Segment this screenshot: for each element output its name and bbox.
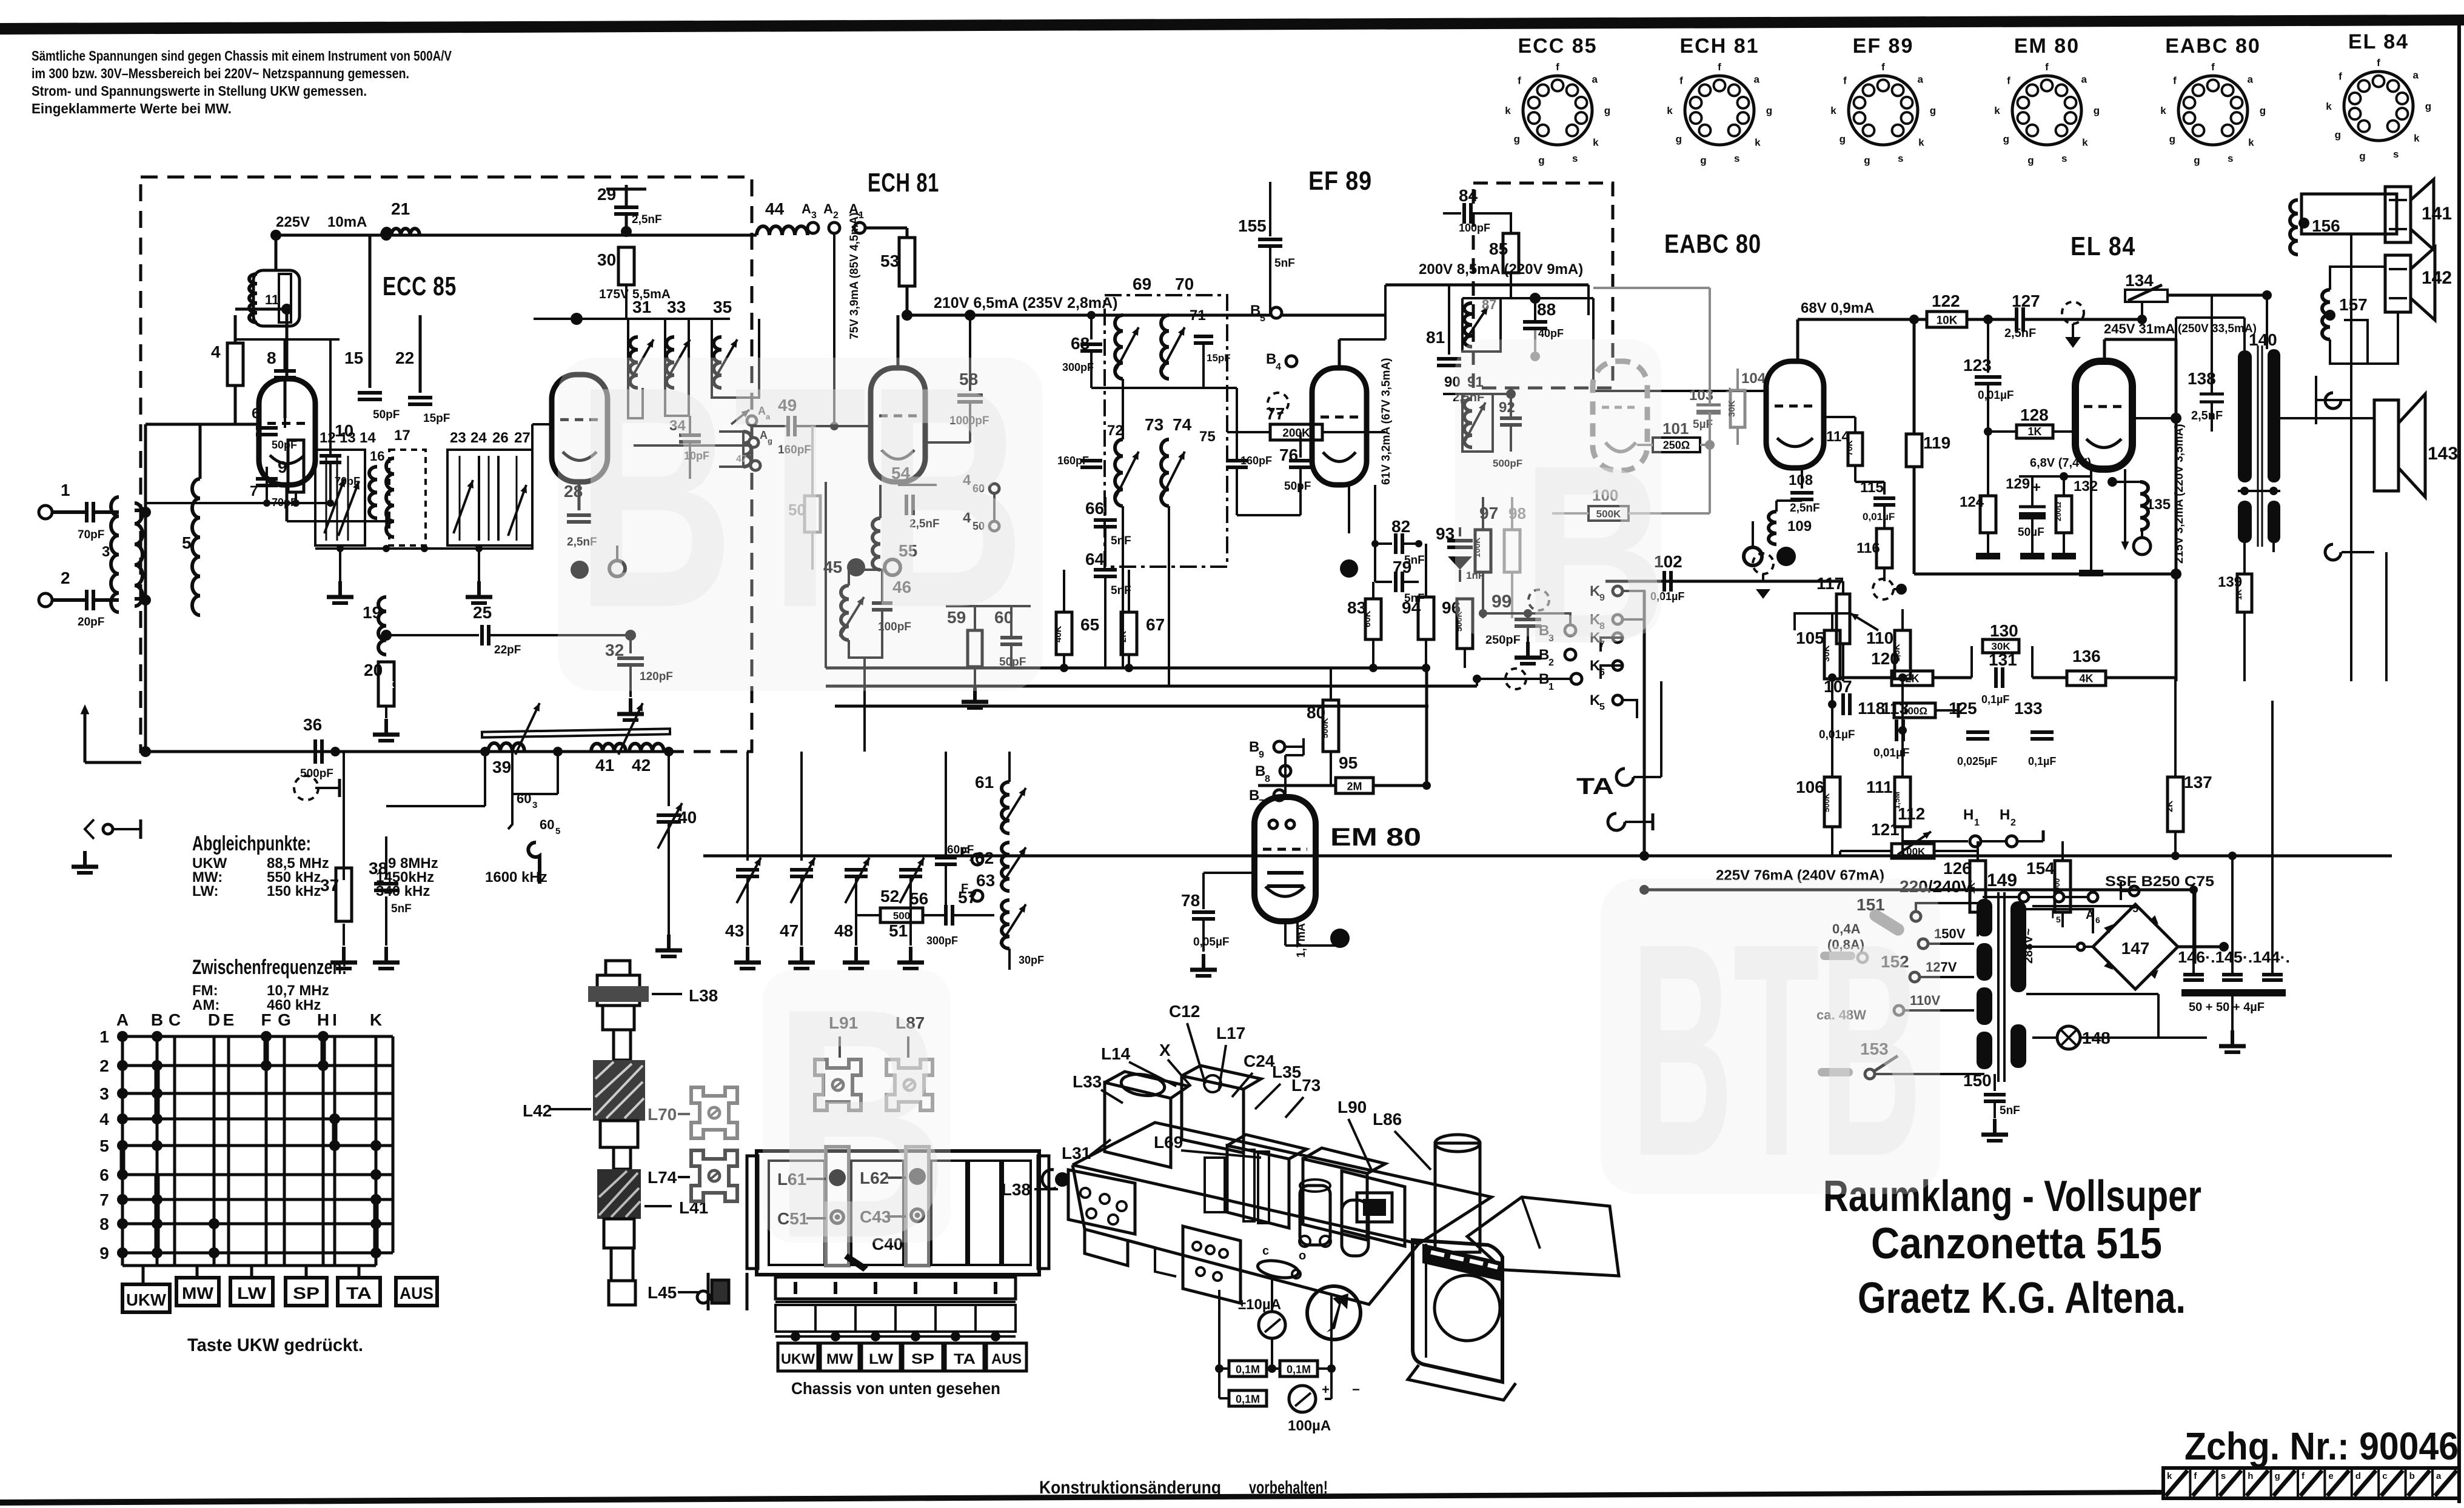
- svg-text:62: 62: [975, 849, 994, 867]
- speaker 143 terminals: [2325, 393, 2341, 409]
- ground 78: [1202, 954, 1205, 970]
- svg-text:36: 36: [303, 715, 322, 734]
- trimmer 47: [800, 752, 803, 861]
- coil 86 87: [1462, 298, 1501, 352]
- chassis left bracket L38 mount: [1068, 1170, 1135, 1234]
- top border bar: [0, 15, 2464, 35]
- coil former L70: [691, 1087, 737, 1138]
- chassis front face: [1073, 1165, 1419, 1304]
- svg-text:73: 73: [1145, 415, 1163, 434]
- svg-text:52: 52: [880, 887, 899, 906]
- heater terminal filled: [571, 561, 589, 579]
- capacitor 29 on top: [625, 185, 628, 206]
- choke 21: [382, 229, 420, 235]
- svg-text:35: 35: [713, 298, 732, 316]
- svg-text:TA: TA: [1576, 774, 1614, 799]
- capacitor 15: [369, 235, 370, 355]
- watermark halo right: [1455, 339, 1661, 636]
- capacitor 38: [385, 836, 387, 879]
- ground filter caps: [2231, 996, 2234, 1030]
- bus pair under ECH81: [826, 667, 1427, 670]
- panel button SP: [903, 1343, 943, 1371]
- svg-text:Konstruktionsänderung: Konstruktionsänderung: [1039, 1478, 1221, 1498]
- svg-text:129: 129: [2006, 476, 2030, 492]
- svg-text:a: a: [2081, 74, 2087, 85]
- resistor 154: [2055, 861, 2071, 912]
- svg-text:g: g: [1930, 105, 1936, 116]
- ground 124: [1976, 553, 2000, 559]
- switch matrix button stems: [142, 1266, 145, 1284]
- svg-text:136: 136: [2072, 647, 2101, 666]
- svg-text:k: k: [1755, 137, 1761, 148]
- svg-text:10mA: 10mA: [327, 214, 367, 230]
- trimmer 43: [746, 752, 749, 861]
- svg-text:LW: LW: [869, 1351, 893, 1367]
- svg-text:EM 80: EM 80: [1330, 822, 1421, 851]
- button MW: [176, 1278, 219, 1306]
- wire coil 11 to HT bus: [275, 235, 278, 270]
- svg-text:C12: C12: [1169, 1002, 1200, 1021]
- wires mixer grid area: [235, 338, 340, 341]
- svg-text:5nF: 5nF: [391, 902, 412, 915]
- ground 38: [384, 947, 388, 963]
- resistor 50: [805, 496, 820, 532]
- svg-text:0,025µF: 0,025µF: [1957, 755, 1997, 767]
- wire EM80 bottom: [1284, 921, 1287, 946]
- svg-text:a: a: [1592, 74, 1598, 85]
- svg-text:30pF: 30pF: [1019, 954, 1044, 966]
- svg-text:93: 93: [1436, 524, 1455, 543]
- svg-text:210V 6,5mA (235V 2,8mA): 210V 6,5mA (235V 2,8mA): [934, 295, 1117, 312]
- wire transformer right to speaker: [2280, 417, 2374, 419]
- svg-text:26: 26: [492, 430, 509, 446]
- svg-text:15pF: 15pF: [1207, 352, 1231, 364]
- svg-text:5nF: 5nF: [1111, 535, 1131, 547]
- svg-text:4: 4: [211, 342, 221, 361]
- svg-text:500: 500: [893, 910, 910, 922]
- svg-text:EABC 80: EABC 80: [1664, 229, 1761, 259]
- coil 135: [2107, 477, 2117, 487]
- capacitor 46: [872, 601, 892, 605]
- svg-text:27: 27: [514, 430, 531, 446]
- wire 215V vertical: [2175, 339, 2178, 681]
- svg-text:72: 72: [1107, 422, 1123, 439]
- filter capacitor 145: [2222, 973, 2243, 976]
- svg-text:142: 142: [2422, 268, 2452, 288]
- IF can 2: [1182, 1076, 1244, 1153]
- svg-text:67: 67: [1146, 615, 1165, 634]
- svg-text:f: f: [2173, 75, 2177, 87]
- svg-text:h: h: [2248, 1471, 2253, 1481]
- speaker 143: [2374, 400, 2399, 491]
- svg-text:f: f: [1679, 75, 1683, 87]
- svg-text:EL 84: EL 84: [2071, 232, 2136, 261]
- svg-text:106: 106: [1796, 778, 1824, 796]
- panel lower band: [775, 1305, 1016, 1332]
- svg-text:118: 118: [1858, 699, 1885, 718]
- transformer base flange: [1408, 1365, 1516, 1400]
- capacitor 22: [419, 315, 422, 393]
- tap 127V: [1910, 972, 1920, 982]
- heater wire from transformer: [2206, 947, 2208, 1038]
- wire anode T1 up: [286, 309, 289, 379]
- svg-text:g: g: [2094, 105, 2100, 116]
- svg-text:a: a: [1754, 74, 1760, 85]
- svg-text:a: a: [2248, 74, 2254, 85]
- svg-text:g: g: [1604, 105, 1610, 116]
- capacitor 34: [679, 433, 701, 437]
- svg-text:c: c: [2382, 1471, 2387, 1481]
- resistor 126: [1970, 861, 1986, 912]
- svg-text:40pF: 40pF: [1538, 327, 1564, 339]
- terminal C43: [909, 1207, 925, 1223]
- svg-text:F: F: [261, 1010, 271, 1029]
- svg-text:11: 11: [265, 292, 279, 307]
- svg-text:k: k: [1918, 137, 1924, 148]
- capacitor 70pF input: [85, 502, 89, 522]
- svg-text:134: 134: [2125, 271, 2154, 290]
- button SP: [286, 1278, 327, 1306]
- svg-text:37: 37: [320, 876, 339, 895]
- switch matrix contact dots: [117, 1031, 128, 1042]
- svg-text:150: 150: [1963, 1071, 1992, 1090]
- svg-text:Zchg. Nr.: 90046: Zchg. Nr.: 90046: [2184, 1424, 2459, 1468]
- capacitor 10: [320, 454, 341, 458]
- svg-text:ECC 85: ECC 85: [1518, 35, 1597, 58]
- svg-text:o: o: [1299, 1249, 1306, 1263]
- svg-text:3: 3: [102, 544, 110, 560]
- antenna base end: [609, 1281, 635, 1305]
- junction dot bus x637: [381, 230, 392, 241]
- svg-text:9: 9: [1259, 750, 1264, 760]
- antenna input terminal 1: [39, 505, 52, 519]
- svg-text:H: H: [2000, 807, 2010, 823]
- svg-text:EL 84: EL 84: [2348, 30, 2409, 53]
- svg-text:2: 2: [99, 1056, 109, 1075]
- terminal A3: [808, 222, 819, 233]
- svg-text:24: 24: [470, 430, 487, 446]
- svg-text:139: 139: [2218, 574, 2242, 590]
- svg-text:23: 23: [450, 430, 466, 446]
- antenna socket dot: [1055, 1172, 1070, 1187]
- ground 132: [2052, 553, 2076, 559]
- svg-text:50pF: 50pF: [1284, 480, 1311, 493]
- resistor 97 100K: [1475, 530, 1491, 572]
- FM filter loop 33: [665, 319, 689, 416]
- label L38 antenna: [652, 993, 682, 995]
- capacitor 28: [578, 482, 580, 508]
- coil L42 winding: [593, 1060, 645, 1121]
- bandfilter box 12 13 14: [315, 450, 365, 545]
- svg-text:B: B: [151, 1010, 163, 1029]
- svg-text:0,1M: 0,1M: [1287, 1363, 1311, 1375]
- capacitor 64: [1094, 568, 1117, 572]
- svg-text:5nF: 5nF: [2000, 1104, 2020, 1117]
- tall cylinder: [1435, 1143, 1480, 1252]
- panel dot row: [791, 1332, 800, 1341]
- svg-text:L45: L45: [648, 1283, 677, 1302]
- speaker wiring: [2330, 267, 2385, 290]
- antenna tube 1: [614, 1030, 631, 1060]
- svg-text:f: f: [1843, 75, 1847, 87]
- svg-text:112: 112: [1898, 804, 1925, 823]
- IF coil 74: [1161, 439, 1169, 506]
- terminal L61: [829, 1169, 846, 1186]
- chassis inner ledge: [1128, 1240, 1176, 1276]
- svg-text:E: E: [223, 1010, 235, 1029]
- bus third: [835, 705, 1428, 708]
- svg-text:s: s: [2061, 153, 2067, 164]
- IF can 3: [1227, 1146, 1289, 1228]
- svg-text:94: 94: [1402, 598, 1421, 617]
- svg-text:132: 132: [2074, 478, 2098, 495]
- terminal C51: [829, 1209, 845, 1225]
- capacitor 66: [1104, 497, 1106, 515]
- svg-text:81: 81: [1426, 328, 1445, 347]
- svg-text:68V 0,9mA: 68V 0,9mA: [1801, 300, 1874, 316]
- switch matrix horizontal lines: [122, 1035, 393, 1038]
- watermark halo bottom left: [763, 970, 951, 1243]
- svg-text:460 kHz: 460 kHz: [267, 997, 321, 1013]
- svg-text:6: 6: [2095, 915, 2100, 925]
- svg-text:Graetz K.G. Altena.: Graetz K.G. Altena.: [1858, 1274, 2186, 1323]
- svg-text:BTB: BTB: [1631, 880, 1922, 1219]
- coil 109: [1769, 512, 1776, 544]
- ground 43: [746, 947, 749, 963]
- svg-text:77: 77: [1266, 404, 1285, 423]
- wire vertical x2353: [1425, 668, 1428, 786]
- long bottom bus: [703, 855, 2392, 858]
- transformer 140 wires: [2266, 295, 2268, 349]
- ground 40: [667, 935, 671, 950]
- svg-text:D: D: [208, 1010, 220, 1029]
- svg-text:UKW: UKW: [781, 1351, 815, 1367]
- svg-text:30: 30: [597, 250, 616, 269]
- svg-text:88: 88: [1537, 300, 1556, 319]
- svg-text:f: f: [2211, 61, 2215, 73]
- tube EABC 80: [1766, 361, 1824, 468]
- svg-text:131: 131: [1989, 650, 2017, 669]
- chassis deck top face: [1073, 1123, 1491, 1244]
- svg-text:43: 43: [725, 921, 744, 940]
- svg-text:2,5nF: 2,5nF: [2191, 409, 2223, 422]
- svg-text:B: B: [1255, 763, 1265, 779]
- oscillator coil 11 with core: [253, 270, 300, 326]
- wire IF top: [1091, 387, 1237, 389]
- wire EF89 anode up: [1338, 339, 1341, 368]
- svg-text:40: 40: [678, 808, 697, 827]
- FM dipole arrow: [84, 708, 87, 762]
- svg-text:4K: 4K: [2079, 673, 2093, 685]
- trimmer block 23 24 26 27: [447, 450, 532, 545]
- svg-text:20pF: 20pF: [78, 616, 104, 629]
- svg-text:141: 141: [2422, 204, 2452, 224]
- heater dot EABC80: [1776, 547, 1796, 566]
- resistor 80 500K: [1323, 700, 1339, 752]
- svg-text:Abgleichpunkte:: Abgleichpunkte:: [192, 832, 311, 855]
- svg-text:7: 7: [99, 1190, 109, 1209]
- svg-text:74: 74: [1173, 415, 1192, 434]
- svg-text:B: B: [1250, 302, 1260, 319]
- filter cap feed wires: [2192, 890, 2195, 975]
- svg-text:g: g: [2425, 101, 2431, 112]
- svg-text:100K: 100K: [1901, 846, 1926, 858]
- coil 39: [488, 743, 524, 752]
- keyboard panel outer: [757, 1151, 1039, 1275]
- node 88: [1530, 293, 1541, 304]
- bridge DC out: [2178, 946, 2224, 949]
- coupling loop right: [719, 432, 743, 467]
- wire 30 down to filters: [625, 285, 628, 319]
- svg-text:40K: 40K: [1053, 626, 1063, 642]
- svg-text:30K: 30K: [1727, 400, 1737, 417]
- resistor 96 500K: [1457, 599, 1473, 649]
- wire box2 to EABC grid: [1592, 298, 1595, 358]
- svg-text:vorbehalten!: vorbehalten!: [1249, 1478, 1328, 1498]
- svg-text:0,1µF: 0,1µF: [2028, 755, 2056, 767]
- svg-text:g: g: [1676, 133, 1682, 145]
- svg-text:LW:: LW:: [192, 883, 219, 899]
- terminal A1: [854, 222, 865, 233]
- ground 150: [1993, 1119, 1997, 1135]
- svg-text:5: 5: [99, 1136, 109, 1155]
- antenna section 4: [604, 1219, 634, 1248]
- wire T2 grid left: [532, 423, 552, 425]
- svg-text:EF 89: EF 89: [1308, 166, 1372, 196]
- lamp 148: [2057, 1026, 2080, 1049]
- svg-text:a: a: [2413, 70, 2419, 81]
- resistor 116: [1876, 529, 1892, 568]
- tap 150V: [1918, 939, 1928, 949]
- svg-text:4: 4: [99, 1110, 109, 1129]
- svg-text:57: 57: [958, 888, 977, 907]
- svg-text:44: 44: [765, 199, 785, 218]
- wire 105 110 top: [1831, 613, 1833, 630]
- EF89 output dashed box: [1473, 183, 1613, 388]
- wire 105 106 chain: [1831, 679, 1833, 777]
- tube EF 89: [1312, 368, 1367, 485]
- svg-text:g: g: [2275, 1471, 2280, 1481]
- resistor 98 100K gray: [1504, 530, 1520, 572]
- svg-text:2K: 2K: [2164, 801, 2175, 812]
- svg-text:EF 89: EF 89: [1853, 35, 1914, 58]
- capacitor 7: [256, 477, 278, 481]
- resistor 114 70K: [1848, 433, 1863, 465]
- svg-text:A: A: [116, 1010, 129, 1029]
- wire A2 down: [833, 233, 835, 427]
- svg-text:L74: L74: [648, 1168, 677, 1187]
- wire EL84 grid right: [2132, 417, 2176, 419]
- svg-text:75V 3,9mA (85V 4,5mA): 75V 3,9mA (85V 4,5mA): [848, 213, 861, 339]
- tuning arrow 39: [515, 703, 540, 755]
- button TA: [338, 1278, 380, 1306]
- svg-text:16: 16: [370, 449, 384, 464]
- IF can 1 L33: [1105, 1083, 1171, 1167]
- svg-text:g: g: [2027, 155, 2034, 166]
- svg-text:8: 8: [1265, 774, 1270, 784]
- bus y947: [1914, 573, 2176, 576]
- capacitor 72 160pF: [1080, 459, 1102, 462]
- AM bus: [141, 750, 673, 753]
- resistor 104 30K: [1730, 390, 1745, 427]
- variable cap 40: [668, 752, 670, 806]
- panel button UKW: [778, 1343, 818, 1371]
- antenna upper body: [597, 975, 640, 1006]
- svg-text:13: 13: [340, 430, 356, 446]
- svg-text:65: 65: [1080, 615, 1099, 634]
- svg-text:122: 122: [1932, 292, 1960, 310]
- svg-text:22: 22: [395, 349, 414, 367]
- output transformer chassis: [1413, 1240, 1502, 1382]
- svg-text:ECC 85: ECC 85: [383, 272, 457, 301]
- svg-text:s: s: [2221, 1471, 2226, 1481]
- svg-text:1K: 1K: [2234, 589, 2243, 600]
- svg-text:g: g: [1864, 155, 1870, 166]
- filter capacitor 144: [2262, 973, 2283, 976]
- heater terminal open: [609, 561, 625, 576]
- coil 55: [872, 518, 880, 570]
- chassis small oval: [1256, 1258, 1299, 1280]
- ground capacitor 32: [629, 698, 632, 714]
- resistor 59: [968, 630, 982, 667]
- svg-text:f: f: [1881, 61, 1885, 73]
- test wiring: [1218, 1290, 1220, 1369]
- svg-text:g: g: [2260, 105, 2266, 116]
- svg-text:C: C: [169, 1010, 181, 1029]
- svg-text:100µA: 100µA: [1288, 1418, 1331, 1434]
- svg-text:1K: 1K: [382, 680, 395, 690]
- resistor 85: [1503, 233, 1519, 273]
- heater ring EABC80: [1744, 547, 1762, 565]
- panel button LW: [862, 1343, 900, 1371]
- IF coil 75 arrow: [1160, 452, 1185, 500]
- svg-text:SP: SP: [911, 1351, 934, 1367]
- svg-text:d: d: [2355, 1471, 2361, 1481]
- svg-text:116: 116: [1856, 540, 1880, 556]
- svg-text:500pF: 500pF: [300, 767, 333, 780]
- variable coil 63: [1002, 900, 1009, 949]
- capacitor 155: [1269, 182, 1271, 236]
- wire vertical junction x240: [144, 424, 147, 752]
- svg-text:200K: 200K: [1282, 427, 1310, 439]
- panel section 5: [1003, 1161, 1031, 1265]
- svg-text:39: 39: [492, 758, 511, 776]
- svg-text:g: g: [2194, 155, 2200, 166]
- chassis deck top edge: [1073, 1165, 1419, 1244]
- resistor 132: [2056, 496, 2072, 533]
- svg-text:135: 135: [2146, 496, 2171, 513]
- tube ECH 81: [871, 368, 925, 482]
- svg-text:300pF: 300pF: [1062, 361, 1094, 373]
- svg-text:30K: 30K: [1821, 645, 1832, 662]
- svg-text:21: 21: [391, 199, 410, 218]
- svg-text:g: g: [2359, 150, 2365, 162]
- svg-text:ECH 81: ECH 81: [868, 168, 939, 198]
- switch matrix thick segments: [155, 1066, 160, 1119]
- svg-text:69: 69: [1133, 275, 1151, 293]
- svg-text:AUS: AUS: [400, 1284, 434, 1303]
- watermark halo bottom right: [1601, 879, 1940, 1194]
- svg-text:149: 149: [1987, 870, 2017, 890]
- svg-text:A: A: [823, 201, 833, 216]
- ground 59: [973, 686, 977, 702]
- panel section 2: [851, 1161, 903, 1265]
- dashed circle band switch: [294, 776, 318, 800]
- svg-text:Chassis von unten gesehen: Chassis von unten gesehen: [791, 1379, 1000, 1398]
- transformer 149 secondary: [2010, 901, 2026, 992]
- svg-text:125: 125: [1949, 699, 1977, 718]
- svg-text:s: s: [2393, 148, 2399, 160]
